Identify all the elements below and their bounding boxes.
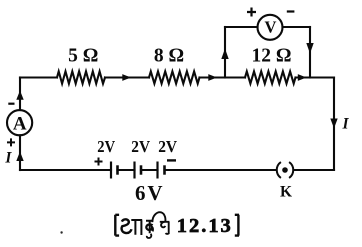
battery cell 2 positive plate (tall) xyxy=(133,162,135,179)
wire left vertical upper xyxy=(19,78,21,111)
minus sign battery xyxy=(167,159,176,161)
ammeter A circle xyxy=(7,110,32,135)
battery cell 2 negative plate (short) xyxy=(140,165,143,174)
battery cell 1 positive plate (tall) xyxy=(110,162,112,179)
up arrow below ammeter xyxy=(16,152,23,162)
caption gujarati letter ta xyxy=(160,222,170,234)
caption gujarati letter aa part2 stems xyxy=(131,220,142,235)
caption gujarati i-matra arc of ti xyxy=(152,212,165,222)
wire between battery cells 3 and 2 xyxy=(141,169,158,171)
plus sign voltmeter xyxy=(247,8,256,17)
wire bottom right to key xyxy=(295,169,335,171)
down arrow on voltmeter right lead xyxy=(306,43,313,54)
battery cell 1 negative plate (short) xyxy=(116,165,119,174)
voltmeter right lead vertical (down to node C) xyxy=(309,27,311,78)
svg-text:V: V xyxy=(147,181,162,205)
wire R3 to top-right corner xyxy=(296,76,335,78)
resistor R2 8 ohm xyxy=(149,71,200,83)
wire right vertical xyxy=(333,78,335,171)
svg-text:2V: 2V xyxy=(158,137,177,156)
up arrow on voltmeter left lead xyxy=(221,49,228,60)
svg-text:5 Ω: 5 Ω xyxy=(68,46,98,67)
key K symbol left arc xyxy=(277,162,281,178)
svg-text:A: A xyxy=(13,113,27,134)
caption gujarati letter kru stem and bar xyxy=(146,221,153,234)
svg-text:I: I xyxy=(4,150,12,167)
voltmeter V circle xyxy=(258,15,283,40)
svg-text:2V: 2V xyxy=(97,137,115,156)
up arrow above ammeter xyxy=(16,91,23,100)
current arrow after R1 xyxy=(122,74,131,81)
wire top left segment xyxy=(20,76,57,78)
wire R2 to node B xyxy=(200,76,246,78)
battery cell 3 positive plate (tall) xyxy=(156,162,158,179)
caption left bracket xyxy=(115,215,119,236)
stray ink dot xyxy=(60,231,62,233)
current arrow after R3 xyxy=(298,74,307,81)
resistor R3 12 ohm xyxy=(245,71,296,83)
caption gujarati vocalic r sign below kru xyxy=(147,234,152,238)
svg-text:K: K xyxy=(280,184,292,201)
resistor R1 5 ohm xyxy=(57,71,105,83)
svg-text:I: I xyxy=(341,116,349,133)
voltmeter top left wire xyxy=(225,26,258,28)
svg-text:8 Ω: 8 Ω xyxy=(154,46,184,67)
voltmeter left lead vertical (node B up) xyxy=(224,27,226,78)
wire key to battery xyxy=(165,169,276,171)
svg-text:6: 6 xyxy=(135,181,146,205)
key K dot xyxy=(282,167,288,173)
plus sign ammeter xyxy=(7,138,15,146)
minus sign ammeter xyxy=(8,103,14,105)
plus sign battery xyxy=(95,158,103,166)
battery cell 3 negative plate (short) xyxy=(163,165,166,174)
svg-text:12 Ω: 12 Ω xyxy=(252,46,292,67)
caption right bracket xyxy=(235,215,239,236)
wire left vertical lower xyxy=(19,135,21,170)
minus sign voltmeter xyxy=(287,10,295,12)
wire between battery cells 2 and 1 xyxy=(118,169,135,171)
key K symbol right arc xyxy=(289,162,293,178)
svg-text:2V: 2V xyxy=(131,137,150,156)
svg-text:12.13: 12.13 xyxy=(177,215,231,237)
svg-text:V: V xyxy=(265,18,277,37)
wire battery to bottom-left corner xyxy=(20,169,111,171)
current arrow after R2 xyxy=(208,74,217,81)
caption gujarati letter aa part1 curl xyxy=(122,219,132,233)
wire R1 to R2 xyxy=(105,76,149,78)
voltmeter top right wire xyxy=(283,26,311,28)
caption gujarati letter kru loop xyxy=(146,224,153,231)
down arrow current I right side xyxy=(330,119,337,129)
